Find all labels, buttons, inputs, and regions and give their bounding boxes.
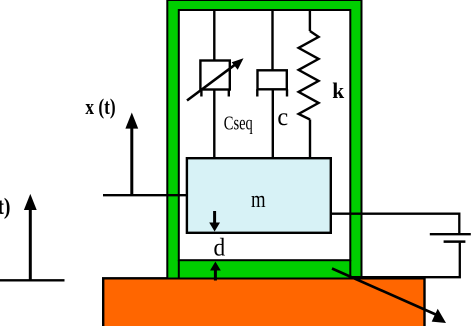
wire: mass to battery (top)	[331, 214, 459, 234]
mass m block	[187, 158, 331, 233]
svg-text:y (t): y (t)	[0, 194, 11, 219]
damper c right leg	[286, 89, 288, 96]
wire: hanger rod of damper c	[271, 11, 273, 70]
variability arrow across Cseq	[187, 63, 238, 101]
frame bottom-left corner seam	[178, 260, 180, 279]
x(t) baseline into mass	[103, 194, 188, 196]
gap arrow up (base top)	[214, 267, 217, 281]
wire: rod from damper c to mass	[272, 89, 274, 157]
gap arrow down (mass bottom)	[213, 211, 216, 226]
svg-text:c: c	[277, 102, 288, 131]
battery short plate	[444, 240, 466, 243]
spring k zigzag	[299, 31, 319, 120]
wire: hanger rod of damper Cseq	[213, 11, 215, 61]
wire: rod from spring k to mass	[309, 120, 311, 158]
svg-text:d: d	[214, 235, 226, 262]
svg-text:k: k	[332, 78, 344, 103]
damper c body	[258, 70, 287, 89]
green frame inner outline	[179, 10, 350, 260]
wire: rod from damper Cseq to mass	[213, 90, 215, 158]
y(t) baseline	[0, 279, 65, 281]
frame bottom-right corner seam	[349, 260, 351, 279]
damper Cseq left leg	[200, 90, 202, 97]
green frame outer outline	[167, 0, 361, 279]
svg-text:m: m	[251, 187, 266, 213]
svg-text:x (t): x (t)	[85, 94, 115, 119]
svg-text:Cseq: Cseq	[224, 113, 253, 135]
x(t) axis arrow	[130, 127, 133, 195]
damper Cseq body	[200, 61, 229, 90]
green frame (fill)	[167, 0, 361, 279]
battery long plate	[430, 233, 471, 235]
orange vibrating base	[103, 278, 424, 326]
wire: hanger rod of spring k	[309, 11, 311, 31]
y(t) axis arrow	[29, 208, 32, 280]
damper c left leg	[256, 89, 258, 96]
damper Cseq right leg	[228, 90, 230, 97]
wire: battery to base (bottom)	[352, 243, 460, 278]
callout arrow to base	[332, 269, 438, 316]
